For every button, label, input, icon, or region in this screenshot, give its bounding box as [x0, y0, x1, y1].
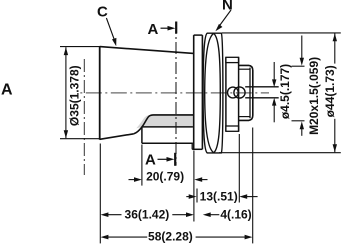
section line end bar top — [175, 22, 177, 34]
slotted ring left face — [225, 57, 227, 131]
slotted ring bottom tab — [226, 126, 239, 131]
section line end bar bottom — [174, 153, 176, 166]
svg-text:A: A — [148, 21, 159, 38]
vertical centerline at cone small end — [83, 59, 85, 175]
cone body (bend relief) left edge — [99, 46, 101, 140]
dim 4(.16) — [203, 212, 211, 217]
svg-text:N: N — [222, 0, 233, 14]
thread root line top — [239, 68, 250, 70]
end chamfer edge — [249, 68, 251, 119]
hex nut center facet lens — [205, 33, 221, 152]
dim ø44: line segments — [334, 33, 336, 63]
ext line x=197 — [196, 189, 198, 203]
dim 36(1.42) — [101, 212, 109, 217]
slotted ring top tab — [226, 57, 239, 62]
svg-text:13(.51): 13(.51) — [200, 189, 238, 203]
dim M20: extension lines — [292, 65, 305, 67]
bore-to-flange step edge — [191, 143, 193, 149]
dim ø44: extension top — [222, 32, 341, 34]
dim ø44: extension bottom — [219, 152, 341, 154]
dim Ø35: line — [65, 47, 67, 138]
svg-text:ø4.5(.177): ø4.5(.177) — [278, 64, 292, 119]
svg-text:A: A — [1, 82, 13, 99]
svg-text:58(2.28): 58(2.28) — [148, 230, 193, 244]
ext line x=252.7 — [252, 128, 254, 244]
dim ø4.5: line/arrows — [273, 62, 275, 82]
svg-text:ø44(1.73): ø44(1.73) — [323, 65, 337, 117]
hex nut N: outline — [203, 33, 223, 153]
dim M20: arrow tails — [301, 36, 303, 61]
cross hole circle left — [228, 87, 239, 98]
ext line bore left (x=142) — [141, 145, 143, 186]
hole silhouette line bottom — [245, 97, 279, 99]
fillet curve into neck + neck top line — [134, 115, 194, 134]
sectioned wall gray fill — [136, 115, 193, 128]
dim Ø35: extension top — [60, 46, 99, 48]
svg-text:M20x1.5(.059): M20x1.5(.059) — [307, 57, 321, 135]
flange disc — [192, 35, 202, 149]
svg-text:C: C — [97, 4, 108, 21]
cable bore top line — [142, 126, 193, 128]
dim 20(.79) — [129, 179, 138, 181]
dim 58(2.28) — [101, 235, 109, 240]
ext line x=100.3 — [99, 144, 101, 244]
cable bore bottom line — [142, 142, 193, 144]
stem left face — [238, 57, 240, 131]
svg-text:20(.79): 20(.79) — [146, 170, 184, 184]
section plane line A-A — [175, 22, 177, 166]
cable bore left edge — [141, 127, 143, 143]
svg-text:Ø35(1.378): Ø35(1.378) — [68, 65, 82, 126]
centerline (horizontal axis) — [80, 92, 269, 94]
hole silhouette line top — [245, 86, 279, 88]
svg-text:36(1.42): 36(1.42) — [125, 207, 170, 221]
svg-text:A: A — [145, 152, 156, 169]
ext line x=239.3 — [238, 134, 240, 203]
cone top edge — [100, 47, 194, 54]
threaded stem M20 outline — [239, 65, 253, 120]
cone bottom edge — [100, 134, 134, 140]
dim 13(.51) — [186, 196, 192, 198]
ext line x=193.7 — [193, 151, 195, 222]
svg-text:4(.16): 4(.16) — [220, 207, 251, 221]
dim Ø35: extension bottom — [60, 138, 101, 140]
cross hole circle right — [234, 87, 245, 98]
thread root line bottom — [239, 116, 250, 118]
